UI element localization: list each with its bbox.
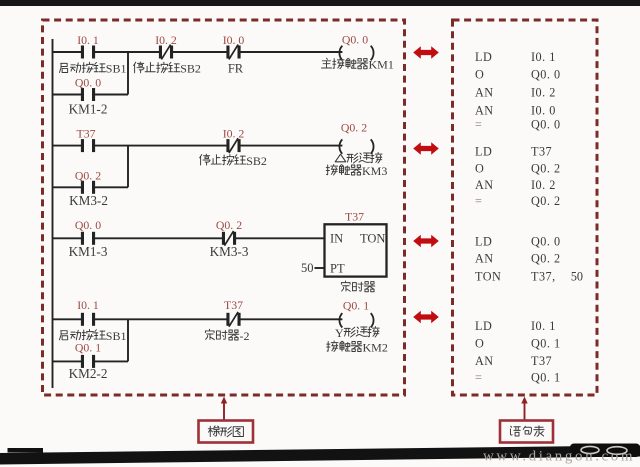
svg-text:FR: FR: [228, 62, 244, 76]
svg-text:Q0. 0: Q0. 0: [531, 68, 561, 82]
svg-text:I0. 2: I0. 2: [223, 127, 245, 141]
svg-text:KM1-2: KM1-2: [69, 102, 108, 117]
svg-text:SB2: SB2: [180, 62, 201, 76]
svg-text:Q0. 0: Q0. 0: [531, 235, 561, 249]
svg-text:Q0. 0: Q0. 0: [531, 118, 561, 132]
svg-text:AN: AN: [475, 354, 494, 368]
svg-text:www.diangon.com: www.diangon.com: [483, 449, 635, 465]
svg-text:Q0. 2: Q0. 2: [531, 194, 561, 208]
svg-text:KM3-2: KM3-2: [69, 193, 108, 208]
svg-text:AN: AN: [475, 178, 494, 192]
svg-text:AN: AN: [475, 252, 494, 266]
svg-text:Y: Y: [335, 326, 344, 340]
svg-text:=: =: [475, 371, 482, 385]
svg-text:IN: IN: [330, 232, 343, 246]
svg-text:KM1-3: KM1-3: [69, 244, 108, 259]
svg-text:KM3: KM3: [362, 164, 387, 178]
svg-text:Q0. 1: Q0. 1: [531, 371, 561, 385]
svg-text:=: =: [475, 194, 482, 208]
svg-text:I0. 0: I0. 0: [223, 33, 245, 47]
svg-text:I0. 1: I0. 1: [531, 50, 556, 64]
svg-text:TON: TON: [475, 270, 501, 284]
svg-text:LD: LD: [475, 235, 492, 249]
svg-text:T37: T37: [76, 127, 95, 141]
svg-text:Q0. 1: Q0. 1: [75, 341, 101, 355]
svg-text:I0. 1: I0. 1: [531, 319, 556, 333]
svg-text:O: O: [475, 337, 484, 351]
svg-text:T37: T37: [224, 298, 243, 312]
svg-text:TON: TON: [360, 232, 385, 246]
svg-text:Q0. 2: Q0. 2: [531, 162, 561, 176]
svg-text:Q0. 2: Q0. 2: [341, 121, 367, 135]
svg-text:T37: T37: [531, 354, 552, 368]
svg-text:T37: T37: [531, 145, 552, 159]
svg-text:PT: PT: [330, 262, 345, 276]
svg-text:SB1: SB1: [106, 62, 127, 76]
svg-text:LD: LD: [475, 50, 492, 64]
svg-text:Q0. 2: Q0. 2: [216, 218, 242, 232]
svg-text:Q0. 2: Q0. 2: [75, 169, 101, 183]
svg-text:KM2-2: KM2-2: [69, 366, 108, 381]
svg-text:Q0. 0: Q0. 0: [75, 218, 101, 232]
svg-text:I0. 2: I0. 2: [155, 33, 177, 47]
svg-text:O: O: [475, 162, 484, 176]
svg-text:Q0. 0: Q0. 0: [75, 76, 101, 90]
svg-text:Q0. 2: Q0. 2: [531, 252, 561, 266]
svg-text:KM2: KM2: [363, 340, 388, 354]
svg-text:SB1: SB1: [106, 329, 127, 343]
svg-text:I0. 1: I0. 1: [77, 298, 99, 312]
svg-text:-2: -2: [240, 329, 250, 343]
svg-text:I0. 0: I0. 0: [531, 104, 556, 118]
svg-text:50: 50: [301, 261, 314, 275]
svg-text:I0. 1: I0. 1: [77, 33, 99, 47]
svg-text:Q0. 1: Q0. 1: [343, 299, 369, 313]
svg-text:KM3-3: KM3-3: [210, 244, 249, 259]
svg-text:SB2: SB2: [246, 154, 267, 168]
svg-text:T37,: T37,: [531, 270, 556, 284]
svg-text:T37: T37: [345, 210, 364, 224]
svg-text:Q0. 1: Q0. 1: [531, 337, 561, 351]
svg-text:50: 50: [571, 270, 583, 284]
svg-text:AN: AN: [475, 86, 494, 100]
svg-text:LD: LD: [475, 319, 492, 333]
svg-text:O: O: [475, 68, 484, 82]
svg-text:=: =: [475, 118, 482, 132]
svg-text:I0. 2: I0. 2: [531, 86, 556, 100]
svg-text:LD: LD: [475, 145, 492, 159]
svg-text:AN: AN: [475, 104, 494, 118]
svg-text:Q0. 0: Q0. 0: [342, 33, 368, 47]
svg-text:I0. 2: I0. 2: [531, 178, 556, 192]
svg-text:KM1: KM1: [369, 58, 394, 72]
